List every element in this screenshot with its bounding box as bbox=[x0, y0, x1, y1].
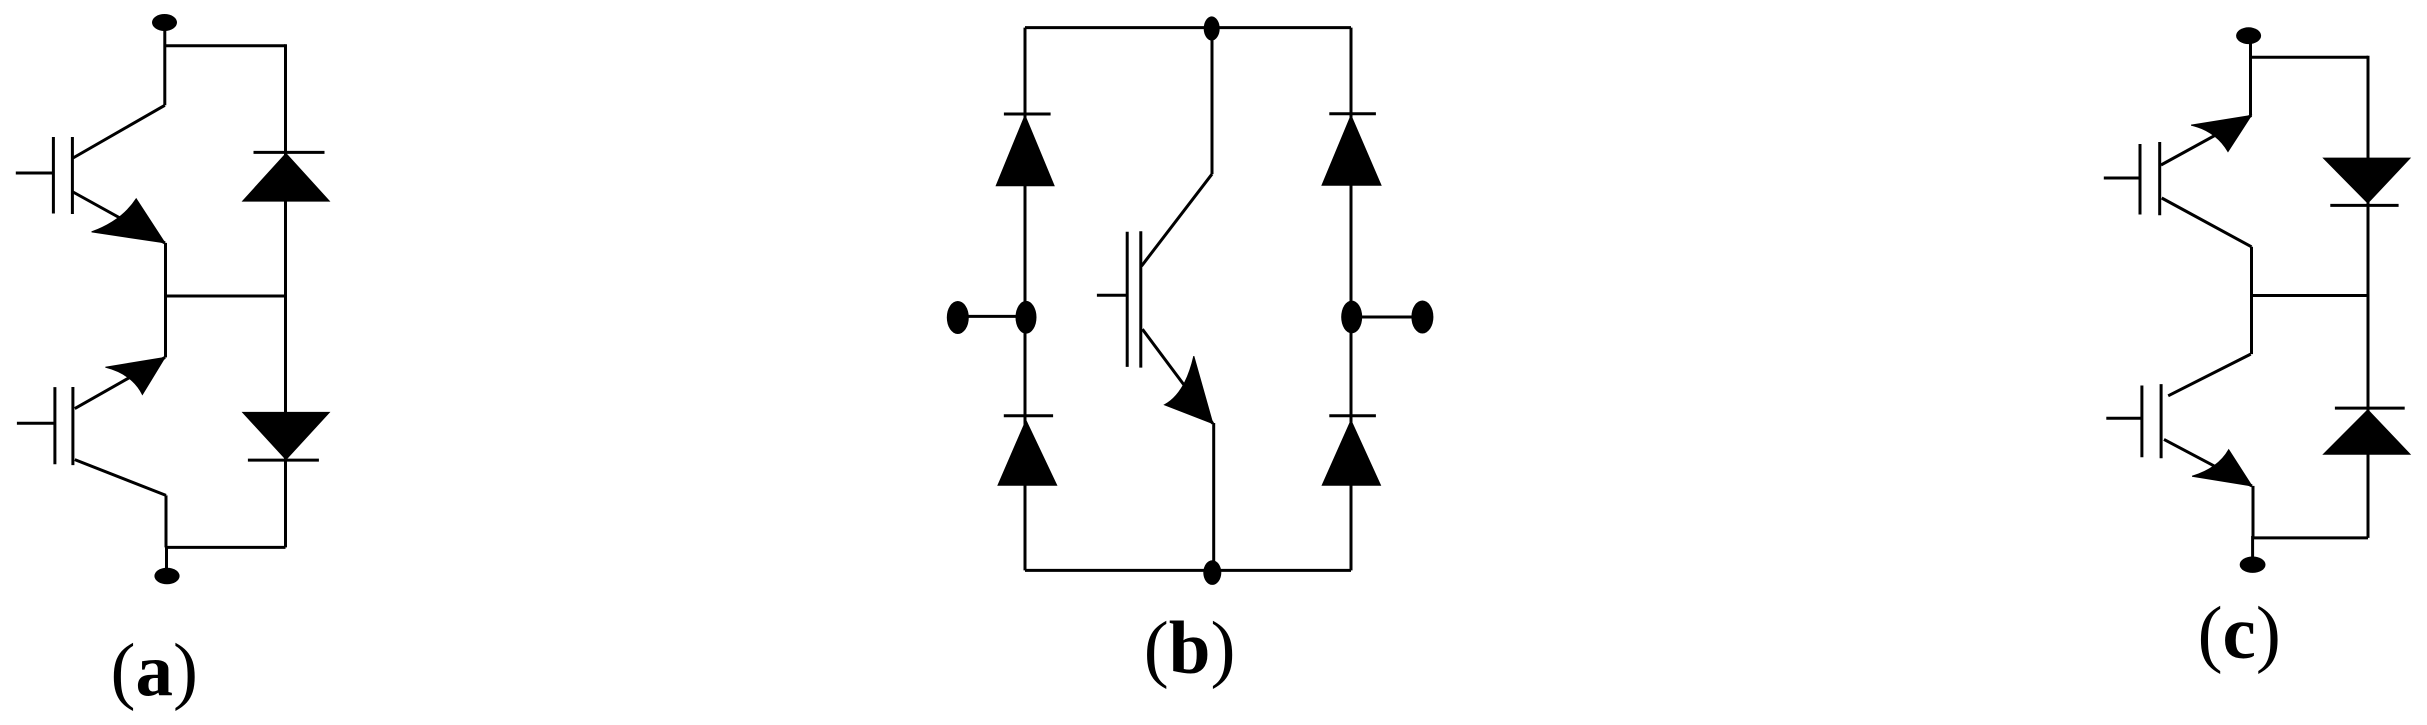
wire: bottom rail (part a) bbox=[166, 546, 286, 549]
wire: top rail (part a) bbox=[165, 44, 286, 47]
wire: bottom terminal stub (part c) bbox=[2251, 536, 2254, 558]
wire: mid node to S2 emitter (part a) bbox=[164, 296, 167, 357]
IGBT S2 (bottom, part a) bbox=[17, 357, 166, 495]
node dot left (part b) bbox=[1016, 301, 1037, 334]
wire: bottom terminal stub (part a) bbox=[165, 546, 168, 568]
wire: S1 emitter to mid node (part a) bbox=[164, 243, 167, 296]
wire: top rail (part c) bbox=[2251, 56, 2369, 59]
wire: right branch vertical (part b) bbox=[1350, 28, 1353, 571]
wire: center collector drop (part b) bbox=[1211, 29, 1214, 175]
wire: collector diagonal to S1 bbox=[73, 105, 165, 158]
wire: bottom rail (part b) bbox=[1025, 569, 1351, 572]
wire: mid rail (part c) bbox=[2252, 294, 2369, 297]
wire: top terminal stub (part c) bbox=[2249, 42, 2252, 115]
IGBT S5 (bottom, part c) bbox=[2106, 354, 2252, 486]
IGBT S1 (top, part a) bbox=[16, 137, 165, 243]
diode D5 (part b, upper right) bbox=[1322, 114, 1381, 185]
diode D7 (part c, upper) bbox=[2324, 158, 2411, 205]
terminal node top (part c) bbox=[2236, 27, 2261, 44]
wire: S2 collector drop (part a) bbox=[165, 495, 168, 547]
wire: S3 emitter drop (part b) bbox=[1212, 423, 1215, 570]
wire: top terminal stub down (part a) bbox=[163, 28, 166, 105]
wire: mid rail (part a) bbox=[166, 295, 286, 298]
terminal node top (part a) bbox=[152, 14, 177, 31]
wire: left terminal stub (part b) bbox=[958, 315, 1026, 318]
wire: collector join vertical (part c) bbox=[2250, 247, 2253, 354]
diode D6 (part b, lower right) bbox=[1322, 416, 1380, 486]
wire: diode branch vertical (part c) bbox=[2367, 56, 2370, 538]
terminal node right (part b) bbox=[1411, 301, 1433, 334]
terminal node left (part b) bbox=[947, 301, 969, 334]
wire: left branch vertical (part b) bbox=[1024, 28, 1027, 571]
svg-text:(a): (a) bbox=[110, 629, 197, 712]
terminal node top (part b) bbox=[1204, 16, 1220, 40]
svg-text:(b): (b) bbox=[1144, 607, 1236, 690]
svg-text:(c): (c) bbox=[2198, 592, 2281, 675]
diode D2 (part a, lower) bbox=[243, 412, 330, 460]
terminal node bottom (part c) bbox=[2240, 557, 2266, 573]
IGBT S4 (top, part c) bbox=[2104, 115, 2252, 246]
terminal node bottom (part a) bbox=[154, 568, 179, 585]
wire: top rail (part b) bbox=[1025, 26, 1351, 29]
diode D1 (part a, upper) bbox=[243, 152, 330, 201]
IGBT S3 (part b) bbox=[1097, 174, 1213, 423]
wire: S5 emitter drop (part c) bbox=[2252, 486, 2255, 538]
wire: right terminal stub (part b) bbox=[1352, 316, 1423, 319]
wire: diode branch vertical (part a) bbox=[284, 44, 287, 547]
diode D3 (part b, upper left) bbox=[996, 114, 1054, 186]
diode D4 (part b, lower left) bbox=[998, 416, 1057, 486]
node dot right (part b) bbox=[1341, 301, 1362, 334]
wire: bottom rail (part c) bbox=[2252, 536, 2368, 539]
diode D8 (part c, lower) bbox=[2324, 408, 2411, 454]
node dot bottom (part b) bbox=[1203, 560, 1221, 585]
